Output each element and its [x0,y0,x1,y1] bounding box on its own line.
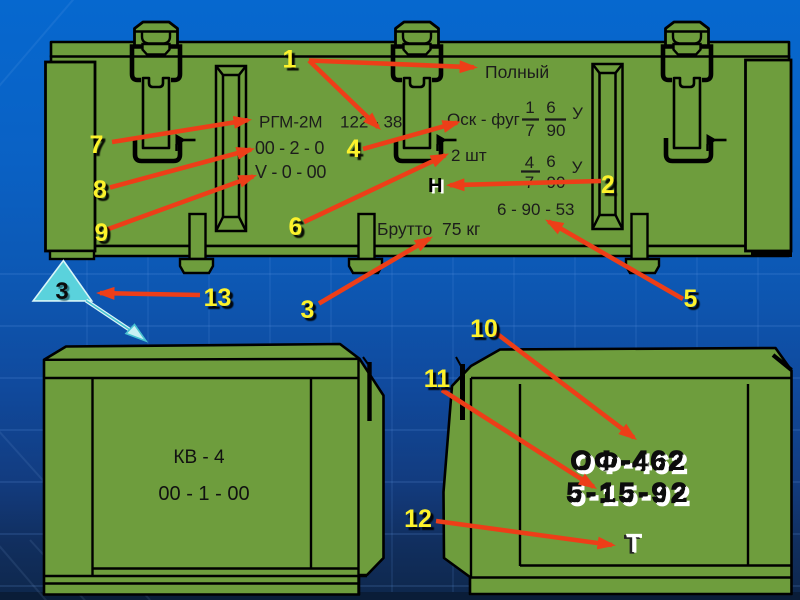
batten B [593,64,623,229]
svg-text:КВ - 4: КВ - 4 [173,447,225,468]
cyan arrow [86,301,146,342]
svg-text:00 - 1 - 00: 00 - 1 - 00 [158,483,249,505]
arrow 4 [363,123,457,149]
arrow 1a to Полный [309,61,474,68]
foot middle [349,214,382,273]
left box inner lines [44,359,367,595]
latch 1 [132,22,196,161]
arrow 5 [549,222,684,300]
right box wire seal [460,364,465,420]
svg-text:2 шт: 2 шт [451,146,487,165]
arrow 8 [110,150,251,188]
arrow 1b down [309,61,378,128]
crate lid strip [51,42,789,57]
latch 2 [393,22,457,161]
svg-text:3: 3 [55,278,68,305]
crate main body [51,56,789,246]
right box inner lines [470,356,792,578]
svg-text:4: 4 [525,153,534,172]
bottom dark band [0,592,800,600]
streaks [0,0,150,600]
foot left [180,214,213,273]
svg-text:Брутто 75 кг: Брутто 75 кг [377,219,480,239]
left box silhouette [44,344,384,595]
fraction 1/7 [525,98,583,140]
svg-text:ОФ-462: ОФ-462 [571,446,687,476]
svg-text:4: 4 [347,135,361,163]
arrow 6 [304,155,445,222]
svg-text:6: 6 [546,98,555,117]
svg-text:Т: Т [626,530,641,558]
svg-text:00 - 2 - 0: 00 - 2 - 0 [255,138,324,158]
svg-text:10: 10 [470,315,498,343]
svg-text:5: 5 [684,285,698,313]
right end panel [746,60,792,251]
svg-text:13: 13 [204,284,232,312]
left end panel [46,62,96,259]
svg-text:Н: Н [428,175,442,197]
svg-text:1: 1 [283,46,297,74]
svg-text:Полный: Полный [485,62,549,82]
arrow 12 [436,521,612,545]
cyan triangle [33,261,92,301]
crate bottom plank strip [51,246,789,256]
fraction 4/7 [525,152,583,192]
svg-text:Оск - фуг: Оск - фуг [447,110,520,129]
batten A [216,66,246,231]
svg-text:РГМ-2М: РГМ-2М [259,113,323,132]
right box silhouette [444,348,792,594]
foot right [626,214,659,273]
svg-text:11: 11 [424,365,451,393]
arrow 11 [442,390,594,487]
crate texts [255,62,583,239]
left box wire seal [367,362,371,421]
latch 3 [663,22,727,161]
svg-text:8: 8 [93,176,107,204]
svg-text:6: 6 [546,152,555,171]
svg-text:6 - 90 - 53: 6 - 90 - 53 [497,200,575,219]
svg-text:2: 2 [601,171,615,199]
svg-text:6: 6 [289,213,303,241]
arrow 2 to Н [450,181,601,185]
arrow 3 [319,239,430,304]
svg-text:90: 90 [547,121,566,140]
arrow 10 [496,333,634,438]
svg-text:9: 9 [95,219,109,247]
svg-text:У: У [572,104,583,123]
svg-text:7: 7 [90,131,104,159]
arrow 7 [112,120,248,142]
arrow 9 [107,176,253,229]
svg-text:3: 3 [301,296,315,324]
svg-text:12: 12 [404,505,432,533]
arrow 13 [100,293,200,295]
svg-text:У: У [572,158,583,177]
right end panel shadow [751,248,792,257]
svg-text:V - 0 - 00: V - 0 - 00 [255,162,326,182]
svg-text:1: 1 [525,98,534,117]
svg-text:7: 7 [525,121,534,140]
